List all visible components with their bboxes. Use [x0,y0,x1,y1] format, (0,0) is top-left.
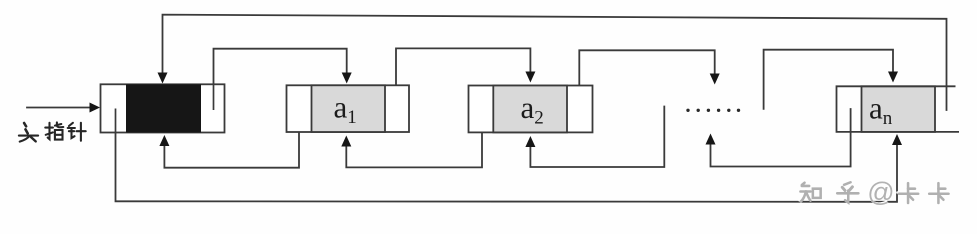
svg-text:@: @ [867,177,894,207]
